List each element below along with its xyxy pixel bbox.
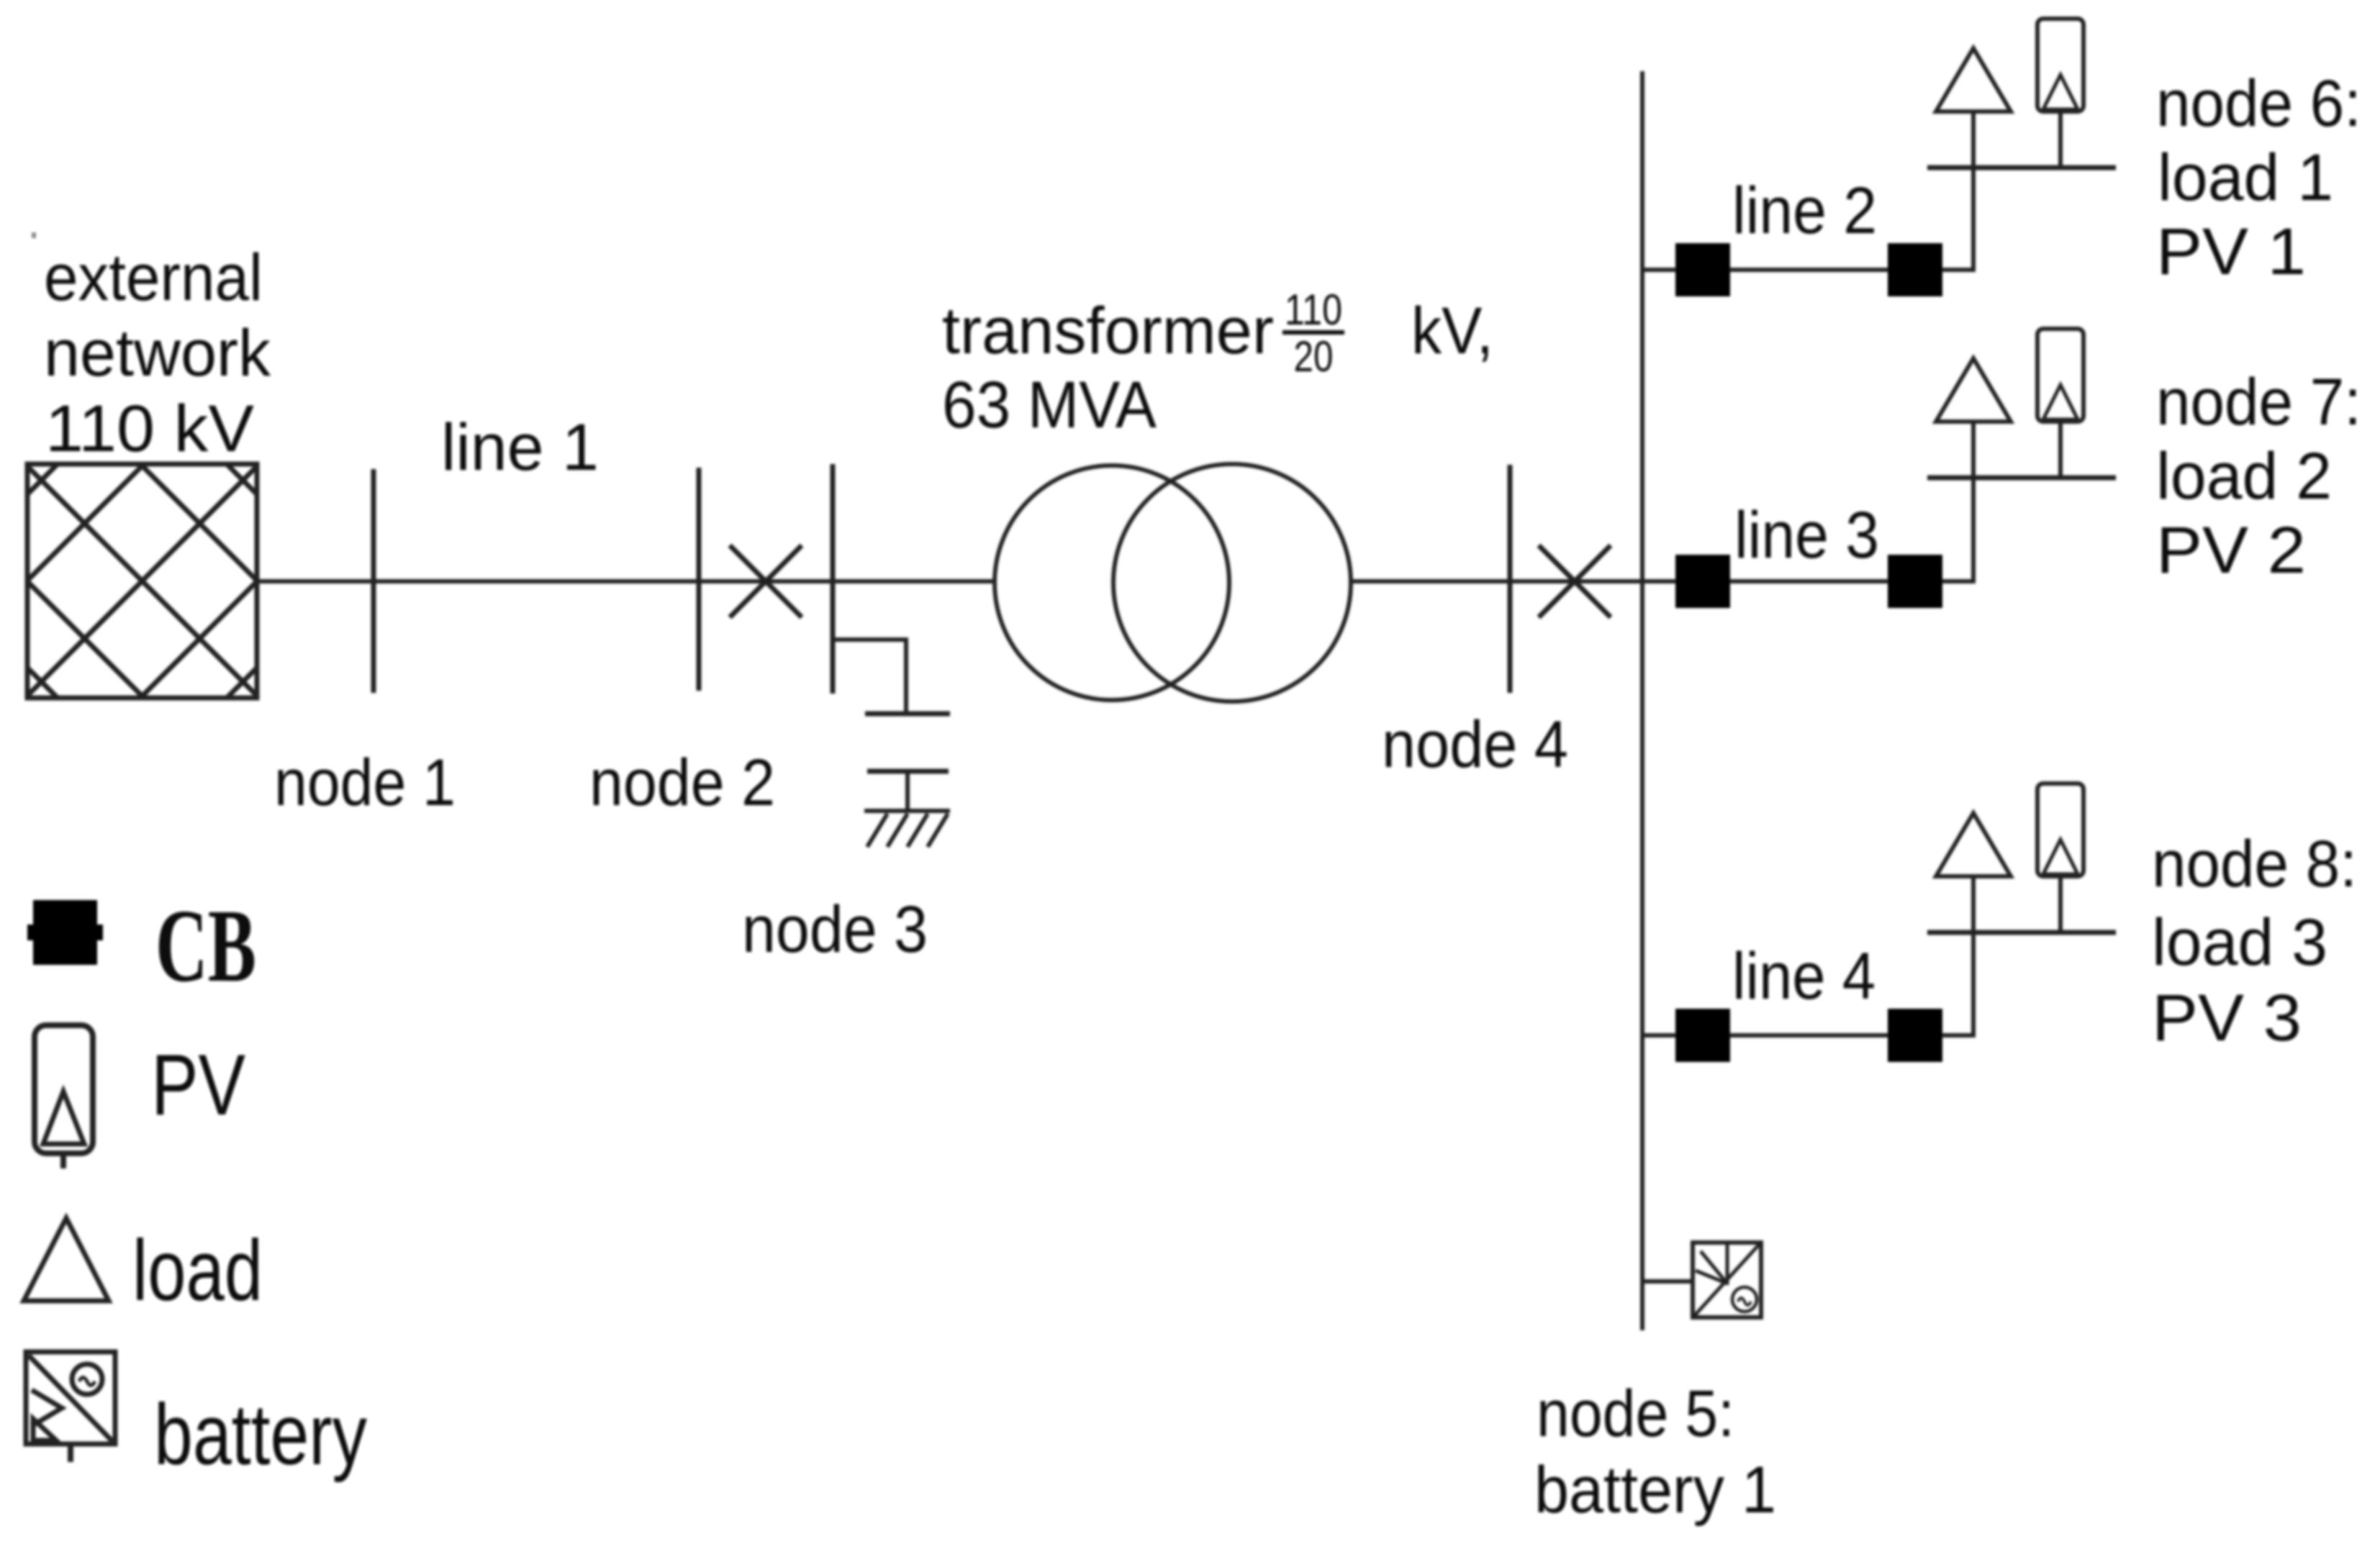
- svg-text:110 kV: 110 kV: [45, 392, 254, 466]
- load 2 triangle: [1936, 358, 2011, 422]
- legend PV symbol: [35, 1025, 93, 1168]
- svg-text:load 1: load 1: [2158, 141, 2333, 214]
- svg-text:PV 2: PV 2: [2156, 514, 2306, 587]
- shunt branch wire to capacitor: [833, 640, 906, 714]
- svg-text:PV 3: PV 3: [2152, 981, 2302, 1055]
- wire: [1730, 1033, 1888, 1037]
- MV bus node 5 vertical: [1640, 71, 1644, 1330]
- wire: [1730, 268, 1888, 272]
- load 1 stem: [1971, 112, 1976, 168]
- wire to node 7: [1942, 478, 1973, 581]
- svg-text:kV,: kV,: [1411, 294, 1493, 368]
- PV 3 inner triangle: [2043, 840, 2078, 874]
- svg-text:node 2: node 2: [589, 746, 775, 819]
- external network grid symbol: [27, 464, 257, 698]
- svg-text:load 3: load 3: [2152, 906, 2327, 979]
- svg-text:CB: CB: [155, 889, 256, 1004]
- node 6 busbar: [1927, 165, 2116, 171]
- svg-text:load 2: load 2: [2156, 440, 2332, 513]
- capacitor plate top: [865, 712, 950, 717]
- load 3 stem: [1971, 876, 1976, 932]
- svg-text:63 MVA: 63 MVA: [942, 368, 1157, 442]
- svg-text:PV 1: PV 1: [2156, 215, 2306, 289]
- transformer T1 winding 1: [995, 466, 1229, 700]
- svg-text:battery 1: battery 1: [1534, 1453, 1776, 1527]
- CB line4-1: [1675, 1009, 1730, 1062]
- wire: external network to transformer: [257, 579, 995, 583]
- wire bus to CB: [1642, 579, 1675, 583]
- disconnector X between node 2 and node 3: [730, 545, 802, 617]
- wire to node 6: [1942, 168, 1973, 270]
- svg-text:node 1: node 1: [274, 746, 456, 819]
- load 2 stem: [1971, 422, 1976, 478]
- legend battery symbol: [26, 1352, 115, 1462]
- node 2 busbar: [697, 468, 702, 691]
- CB line4-2: [1888, 1009, 1942, 1062]
- speck: [32, 232, 36, 238]
- svg-text:node 3: node 3: [742, 893, 928, 966]
- node 1 busbar: [371, 469, 376, 693]
- svg-text:transformer: transformer: [942, 294, 1274, 368]
- svg-text:network: network: [44, 317, 271, 390]
- CB line2-1: [1675, 243, 1730, 296]
- svg-text:node 6:: node 6:: [2156, 67, 2361, 140]
- wire bus to battery: [1642, 1279, 1693, 1284]
- svg-text:20: 20: [1294, 332, 1334, 381]
- svg-text:battery: battery: [154, 1386, 367, 1483]
- node 8 busbar: [1927, 930, 2116, 935]
- svg-text:node 7:: node 7:: [2156, 365, 2361, 439]
- svg-text:line 1: line 1: [441, 411, 599, 484]
- transformer T1 winding 2: [1113, 464, 1351, 701]
- svg-text:node 5:: node 5:: [1537, 1377, 1734, 1450]
- battery 1 symbol: [1693, 1243, 1761, 1317]
- load 3 triangle: [1936, 813, 2011, 876]
- CB line3-1: [1675, 555, 1730, 608]
- svg-text:line 2: line 2: [1732, 174, 1877, 248]
- PV 3 stem: [2058, 876, 2063, 932]
- wire: [1730, 579, 1888, 583]
- svg-text:PV: PV: [151, 1037, 245, 1133]
- svg-text:line 3: line 3: [1734, 499, 1879, 572]
- legend load symbol: [24, 1218, 109, 1301]
- svg-text:node 4: node 4: [1382, 708, 1568, 781]
- wire to node 8: [1942, 932, 1973, 1035]
- PV 2 inner triangle: [2043, 385, 2078, 419]
- svg-text:external: external: [44, 241, 263, 314]
- node 3 busbar: [831, 464, 836, 694]
- legend CB symbol: [27, 900, 103, 965]
- wire bus to CB: [1642, 1033, 1675, 1037]
- wire bus to CB: [1642, 268, 1675, 272]
- node 7 busbar: [1927, 476, 2116, 481]
- load 1 triangle: [1936, 48, 2011, 112]
- PV 1 inner triangle: [2043, 75, 2078, 109]
- PV 1 stem: [2058, 112, 2063, 168]
- wire capacitor to ground: [905, 771, 910, 811]
- PV 1 panel: [2037, 19, 2083, 112]
- svg-text:110: 110: [1285, 286, 1342, 334]
- PV 2 panel: [2037, 329, 2083, 422]
- CB line3-2: [1888, 555, 1942, 608]
- PV 3 panel: [2037, 784, 2083, 876]
- wire: transformer to bus: [1351, 579, 1642, 583]
- node 4 busbar: [1508, 465, 1513, 693]
- svg-text:line 4: line 4: [1732, 940, 1876, 1013]
- disconnector X near node 4: [1539, 545, 1611, 617]
- svg-text:node 8:: node 8:: [2152, 827, 2357, 901]
- ground symbol: [864, 811, 950, 847]
- capacitor plate bottom: [867, 769, 949, 774]
- CB line2-2: [1888, 243, 1942, 296]
- PV 2 stem: [2058, 422, 2063, 478]
- svg-text:load: load: [132, 1222, 263, 1319]
